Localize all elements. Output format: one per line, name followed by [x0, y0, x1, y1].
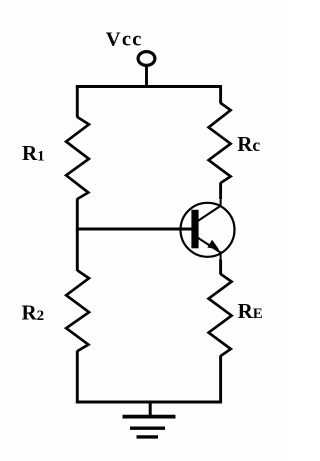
svg-text:R2: R2 — [22, 301, 45, 325]
transistor Q1 collector diagonal — [197, 206, 221, 222]
ground bar 2 — [130, 427, 165, 430]
svg-text:Vcc: Vcc — [106, 29, 143, 51]
Vcc terminal circle — [138, 52, 155, 66]
wire top rail — [76, 85, 222, 88]
resistor R1 — [66, 117, 89, 199]
wire collector vertical — [219, 183, 222, 200]
resistor R2 — [66, 271, 89, 352]
wire emitter vertical — [220, 252, 222, 261]
node base junction / wire base — [76, 228, 192, 231]
transistor Q1 emitter diagonal — [197, 237, 220, 252]
wire left upper vertical — [76, 85, 79, 117]
wire right upper vertical — [219, 85, 222, 103]
svg-text:RE: RE — [238, 299, 263, 323]
transistor Q1 base bar — [191, 210, 198, 249]
wire left middle vertical — [76, 199, 79, 272]
wire right lower vertical — [219, 356, 222, 404]
transistor Q1 emitter arrowhead — [207, 240, 219, 250]
wire Vcc stub — [145, 66, 148, 88]
svg-text:Rc: Rc — [237, 132, 260, 156]
ground bar 1 — [123, 415, 176, 419]
ground bar 3 — [137, 435, 159, 438]
resistor Rc — [209, 103, 231, 183]
ground stem — [149, 402, 152, 417]
wire left lower vertical — [76, 351, 79, 404]
svg-text:R1: R1 — [22, 141, 45, 165]
transistor Q1 circle — [181, 203, 235, 257]
resistor RE — [209, 274, 232, 356]
wire bottom rail — [76, 401, 222, 404]
